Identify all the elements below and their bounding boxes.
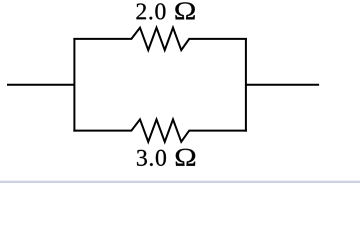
value label ohm symbol top: [175, 2, 194, 19]
wire left lead: [7, 84, 74, 86]
wire right lead: [246, 84, 319, 86]
wire left branch vertical: [73, 38, 75, 132]
value label 3.0: [137, 150, 166, 166]
value label 2.0: [136, 3, 165, 19]
resistor R2 (3.0 ohm) with bottom rail wires: [73, 119, 247, 141]
divider bar bottom: [0, 180, 360, 183]
value label ohm symbol bottom: [176, 149, 195, 166]
wire right branch vertical: [245, 38, 247, 132]
resistor R1 (2.0 ohm) with top rail wires: [73, 28, 247, 50]
